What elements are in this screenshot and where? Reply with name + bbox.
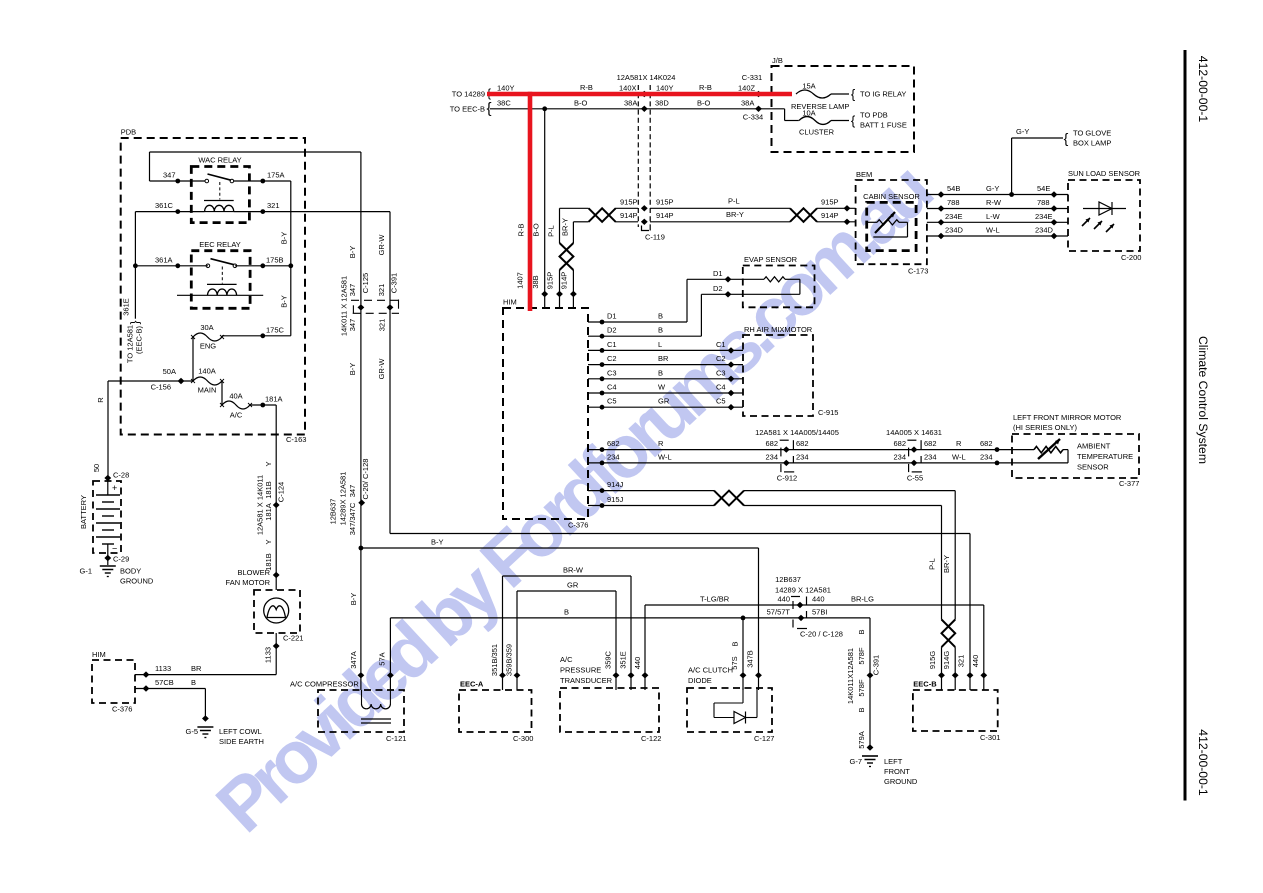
svg-text:175A: 175A <box>267 171 285 180</box>
svg-text:AMBIENT: AMBIENT <box>1077 442 1111 451</box>
pin diamond C-334 <box>755 106 762 112</box>
label PDB <box>121 128 136 137</box>
svg-text:347: 347 <box>348 319 357 332</box>
svg-text:38C: 38C <box>497 99 511 108</box>
label C-334 <box>743 113 763 122</box>
pin 914G <box>952 672 959 678</box>
label TO 14289 <box>452 90 485 99</box>
svg-text:REVERSE LAMP: REVERSE LAMP <box>791 102 849 111</box>
label 175B <box>266 255 284 264</box>
pin diamond 914P C-119 <box>641 219 648 225</box>
svg-text:1133: 1133 <box>264 647 273 663</box>
svg-text:C-55: C-55 <box>907 474 923 483</box>
label SENSOR <box>1077 463 1109 472</box>
svg-text:C-331: C-331 <box>742 73 762 82</box>
svg-text:15A: 15A <box>802 82 815 91</box>
mirror motor box <box>1012 434 1139 478</box>
svg-text:−: − <box>112 544 117 554</box>
wire 361E <box>134 266 136 319</box>
svg-text:234: 234 <box>980 452 993 461</box>
svg-text:A/C: A/C <box>230 411 243 420</box>
label C-376 main <box>568 521 588 530</box>
svg-text:R: R <box>956 439 962 448</box>
svg-text:{: { <box>129 320 143 324</box>
brace TO GLOVE <box>1064 130 1069 146</box>
HIM main box <box>503 308 588 519</box>
label C-376 bottom <box>112 705 132 714</box>
svg-text:G-1: G-1 <box>79 567 92 576</box>
svg-text:578F: 578F <box>857 647 866 665</box>
label CABIN SENSOR <box>863 192 920 201</box>
label C-121 <box>386 734 406 743</box>
svg-text:14A005 X 14631: 14A005 X 14631 <box>886 428 942 437</box>
svg-text:914P: 914P <box>560 272 569 290</box>
battery box <box>93 481 121 553</box>
svg-text:B-O: B-O <box>574 99 588 108</box>
label 359C rot <box>603 650 612 669</box>
label battery minus <box>112 544 117 554</box>
wire B-Y to 347B <box>758 548 760 690</box>
svg-text:54B: 54B <box>947 184 960 193</box>
pin 38B into HIM <box>541 291 548 308</box>
label LEFT FRONT MIRROR MOTOR <box>1013 413 1122 422</box>
label 915J <box>607 495 624 504</box>
svg-text:914P: 914P <box>620 211 638 220</box>
svg-text:G-7: G-7 <box>849 757 862 766</box>
svg-text:321: 321 <box>377 284 386 297</box>
svg-text:CABIN SENSOR: CABIN SENSOR <box>863 192 920 201</box>
EEC relay coil baseline <box>177 294 263 296</box>
label 54B <box>947 184 960 193</box>
svg-text:347: 347 <box>163 171 176 180</box>
svg-text:BR: BR <box>658 354 669 363</box>
pin 234E r <box>1051 219 1058 225</box>
title Climate Control System <box>1196 336 1210 464</box>
svg-text:W-L: W-L <box>986 226 1000 235</box>
label B C3 <box>658 368 663 377</box>
connector C-119 dashed lines <box>638 85 650 227</box>
dot 234 HIM <box>600 461 605 466</box>
label W-L mid <box>952 452 966 461</box>
label 914J <box>607 480 624 489</box>
svg-text:347: 347 <box>348 485 357 498</box>
label 175C <box>266 325 285 334</box>
pin 54B r <box>1051 191 1058 197</box>
svg-text:D2: D2 <box>607 326 617 335</box>
label C2 him <box>607 354 617 363</box>
pin C4 mix motor <box>728 390 735 396</box>
label 914P l <box>620 211 638 220</box>
label 234 c912 r <box>796 452 809 461</box>
EEC-A box <box>459 690 532 732</box>
label P-L rot2 <box>928 558 937 570</box>
label 57CB <box>155 678 174 687</box>
label R-B top1 <box>580 83 593 92</box>
svg-text:Climate Control System: Climate Control System <box>1196 336 1210 464</box>
label 347 below rot <box>348 319 357 332</box>
twist vertical P-L/BR-Y <box>560 243 574 270</box>
label 321 below rot <box>378 319 387 332</box>
svg-text:321: 321 <box>267 201 280 210</box>
wire 234 row <box>588 462 1013 464</box>
svg-text:914P: 914P <box>656 211 674 220</box>
page border rule <box>1184 50 1187 801</box>
wire 914J <box>588 491 955 620</box>
label 234E l <box>945 212 963 221</box>
dot C1 HIM <box>600 348 605 353</box>
svg-text:C-127: C-127 <box>754 734 774 743</box>
svg-text:B: B <box>191 678 196 687</box>
pin 57S <box>740 672 747 678</box>
svg-text:BEM: BEM <box>856 170 872 179</box>
junction box J/B <box>772 66 915 152</box>
label 234D l <box>945 226 964 235</box>
svg-text:12A581 X 14A005/14405: 12A581 X 14A005/14405 <box>755 428 839 437</box>
label BODY GROUND <box>120 567 154 586</box>
label AMBIENT <box>1077 442 1111 451</box>
svg-text:SIDE EARTH: SIDE EARTH <box>219 737 264 746</box>
svg-text:440: 440 <box>812 595 825 604</box>
svg-text:347A: 347A <box>349 651 358 669</box>
svg-text:B-Y: B-Y <box>431 538 444 547</box>
label 440 l <box>777 595 790 604</box>
svg-text:38B: 38B <box>531 275 540 288</box>
label B d2 <box>658 326 663 335</box>
junction dot 361A <box>175 263 180 268</box>
label 175A <box>267 171 285 180</box>
label SUN LOAD SENSOR <box>1068 169 1141 178</box>
label LEFT FRONT GROUND <box>884 757 918 786</box>
pin 915G <box>938 672 945 678</box>
pin 1133 <box>143 671 150 677</box>
svg-text:W-L: W-L <box>658 452 672 461</box>
svg-text:440: 440 <box>633 657 642 670</box>
svg-text:LEFT: LEFT <box>884 757 903 766</box>
label 15A <box>802 82 815 91</box>
svg-text:234: 234 <box>796 452 809 461</box>
svg-text:Y: Y <box>264 539 273 544</box>
label 38A-2 <box>741 99 754 108</box>
svg-text:914J: 914J <box>607 480 624 489</box>
svg-text:234: 234 <box>893 452 906 461</box>
label B-Y horiz <box>431 538 444 547</box>
svg-text:SUN LOAD SENSOR: SUN LOAD SENSOR <box>1068 169 1141 178</box>
connector C-55 <box>907 440 922 472</box>
svg-text:{: { <box>851 86 856 101</box>
svg-text:W: W <box>658 383 666 392</box>
wire 175A lead <box>234 180 291 182</box>
svg-text:C1: C1 <box>716 340 726 349</box>
label HIM bottom <box>92 650 106 659</box>
label A/C COMPRESSOR <box>290 680 359 689</box>
ground G-5 <box>197 727 213 738</box>
svg-text:C5: C5 <box>607 397 617 406</box>
svg-text:234E: 234E <box>945 212 963 221</box>
EVAP resistor loop <box>743 277 800 295</box>
label 181A <box>265 395 283 404</box>
svg-text:361E: 361E <box>122 298 131 316</box>
svg-text:412-00-00-1: 412-00-00-1 <box>1196 729 1210 796</box>
svg-text:R-B: R-B <box>517 224 526 237</box>
svg-text:C3: C3 <box>716 368 726 377</box>
svg-text:FAN MOTOR: FAN MOTOR <box>226 578 271 587</box>
label C1 mix <box>716 340 726 349</box>
label 38B rot <box>531 275 540 288</box>
wire D2 to EVAP <box>588 294 743 336</box>
label BR <box>191 664 202 673</box>
junction dot 175C <box>260 333 265 338</box>
svg-text:57/57T: 57/57T <box>767 607 791 616</box>
svg-text:915J: 915J <box>607 495 624 504</box>
label TO 12A581 <box>126 325 135 363</box>
label R-B rot <box>517 224 526 237</box>
pin 915P BEM <box>844 205 851 211</box>
svg-text:EEC-B: EEC-B <box>913 680 937 689</box>
label 351B/351 rot <box>490 644 499 676</box>
label GR C5 <box>658 397 670 406</box>
svg-text:57CB: 57CB <box>155 678 174 687</box>
svg-text:G-Y: G-Y <box>986 184 999 193</box>
label 234E r <box>1035 212 1053 221</box>
label TO GLOVE BOX LAMP <box>1073 129 1111 148</box>
clutch diode symbol <box>714 688 757 724</box>
pin C5 mix motor <box>728 404 735 410</box>
pin C-156 <box>178 378 185 384</box>
red wire 140Y/1407 <box>487 92 792 311</box>
brace TO 14289 <box>487 86 491 100</box>
dot C4 HIM <box>600 391 605 396</box>
svg-text:C-20 / C-128: C-20 / C-128 <box>800 630 843 639</box>
sun load sensor box <box>1068 180 1140 251</box>
label 1407 rot <box>516 272 525 289</box>
wire 914P mid <box>615 221 790 223</box>
label 361A <box>155 255 173 264</box>
svg-text:B-Y: B-Y <box>348 246 357 259</box>
label 57S rot <box>730 656 739 669</box>
svg-text:(HI SERIES ONLY): (HI SERIES ONLY) <box>1013 423 1078 432</box>
label 440 transducer rot <box>633 657 642 670</box>
label C1 him <box>607 340 617 349</box>
label 10A <box>802 109 815 118</box>
svg-text:R-B: R-B <box>699 83 712 92</box>
label 181B rot1 <box>264 481 273 499</box>
cabin sensor thermistor <box>867 212 908 237</box>
brace TO PDB BATT1 <box>851 113 856 128</box>
pin 915P HIM <box>556 291 563 297</box>
wire C2 row <box>588 364 743 366</box>
wire 361A row <box>135 265 208 267</box>
label B-Y vert2 <box>279 295 288 308</box>
label B-Y bus top rot <box>348 246 357 259</box>
label 578F below rot <box>857 679 866 697</box>
power distribution box PDB <box>121 138 305 435</box>
pin 321 EEC-B <box>967 672 974 678</box>
label 38C <box>497 99 511 108</box>
relay WAC box <box>191 167 249 223</box>
wire C1 row <box>588 349 743 351</box>
ground G-1 <box>100 566 116 577</box>
pin 440 transducer <box>642 672 649 678</box>
svg-text:EVAP SENSOR: EVAP SENSOR <box>744 255 798 264</box>
label 1133 rot <box>264 647 273 663</box>
svg-text:R-W: R-W <box>986 198 1002 207</box>
svg-text:915G: 915G <box>928 651 937 670</box>
battery cells <box>96 478 120 565</box>
svg-text:38D: 38D <box>655 99 669 108</box>
svg-text:788: 788 <box>1037 198 1050 207</box>
label C-301 <box>980 733 1000 742</box>
svg-text:578F: 578F <box>857 679 866 697</box>
label C-29 <box>113 555 129 564</box>
svg-text:C-376: C-376 <box>112 705 132 714</box>
svg-text:C-200: C-200 <box>1121 253 1141 262</box>
label 682 c55 l <box>893 439 906 448</box>
label 234 c55 r <box>924 452 937 461</box>
svg-text:C-121: C-121 <box>386 734 406 743</box>
label HI SERIES ONLY <box>1013 423 1078 432</box>
A/C clutch diode box <box>687 688 772 732</box>
label 682 c55 r <box>924 439 937 448</box>
svg-text:914P: 914P <box>821 211 839 220</box>
svg-text:682: 682 <box>924 439 937 448</box>
svg-text:BR: BR <box>191 664 202 673</box>
svg-text:B: B <box>857 629 866 634</box>
wire D1 to EVAP <box>588 279 743 322</box>
label W-L 234 <box>658 452 672 461</box>
svg-text:P-L: P-L <box>928 558 937 570</box>
label B-O rot <box>532 223 541 237</box>
wire 321 lead GR-W <box>234 211 390 213</box>
wire 361C row <box>135 212 204 266</box>
svg-text:C-377: C-377 <box>1119 479 1139 488</box>
svg-text:C-912: C-912 <box>777 474 797 483</box>
label GR-W top rot <box>377 234 386 256</box>
label BATT 1 FUSE <box>860 121 907 130</box>
pin 788 r <box>1051 205 1058 211</box>
svg-text:234: 234 <box>924 452 937 461</box>
pin C-391 <box>387 304 394 310</box>
label 914P rot <box>560 272 569 290</box>
wire 915J <box>588 506 942 620</box>
RH air mix motor box <box>743 335 813 416</box>
label 321 above rot <box>377 284 386 297</box>
fuse 30A ENG <box>191 333 224 341</box>
label 57A rot <box>378 652 387 665</box>
svg-text:57BI: 57BI <box>812 607 827 616</box>
label C-200 <box>1121 253 1141 262</box>
pin C2 mix motor <box>728 361 735 367</box>
label 579A rot <box>857 731 866 749</box>
wire 914P riser <box>573 222 588 308</box>
svg-text:C3: C3 <box>607 368 617 377</box>
label A/C PRESSURE TRANSDUCER <box>560 655 613 685</box>
label 321 <box>267 201 280 210</box>
label G-Y upper <box>1016 127 1029 136</box>
label 181B rot2 <box>264 553 273 571</box>
svg-text:682: 682 <box>893 439 906 448</box>
twist 915P/914P left <box>589 208 616 222</box>
label T-LG/BR <box>700 595 730 604</box>
svg-text:+: + <box>112 483 117 493</box>
wire 915P riser <box>560 208 589 308</box>
wire 54B row <box>927 194 1068 196</box>
label BR-LG <box>851 595 874 604</box>
svg-text:(EEC-B): (EEC-B) <box>135 326 144 354</box>
svg-text:R: R <box>658 439 664 448</box>
EVAP sensor box <box>743 266 815 308</box>
fuse 40A AC <box>220 401 252 409</box>
pin 234D r <box>1051 233 1058 239</box>
svg-text:B: B <box>730 641 739 646</box>
svg-text:G-Y: G-Y <box>1016 127 1029 136</box>
label GR <box>567 581 579 590</box>
label C-20/C-128 rot <box>361 459 370 500</box>
label J/B <box>772 56 783 65</box>
label TO EEC-B <box>450 105 485 114</box>
WAC relay coil <box>205 205 234 211</box>
svg-text:57A: 57A <box>378 652 387 665</box>
svg-text:BLOWER: BLOWER <box>237 568 270 577</box>
wire GR-W bus <box>390 212 970 690</box>
label 682 him <box>607 439 620 448</box>
svg-text:C-300: C-300 <box>513 734 533 743</box>
svg-text:BR-Y: BR-Y <box>561 218 570 236</box>
label C-122 <box>641 734 661 743</box>
svg-text:181B: 181B <box>264 481 273 499</box>
label Y rot1 <box>264 461 273 466</box>
svg-text:C-376: C-376 <box>568 521 588 530</box>
svg-text:359C: 359C <box>603 650 612 669</box>
wire 234E row <box>927 221 1068 223</box>
svg-text:181A: 181A <box>264 503 273 521</box>
wire 140A left to battery <box>108 381 193 478</box>
label BATTERY <box>79 495 88 529</box>
label 12B637 rot <box>329 499 338 525</box>
svg-text:915P: 915P <box>546 272 555 290</box>
svg-text:C-391: C-391 <box>872 655 881 675</box>
svg-text:C-301: C-301 <box>980 733 1000 742</box>
svg-text:C1: C1 <box>607 340 617 349</box>
svg-text:C-915: C-915 <box>818 408 838 417</box>
label 788 l <box>947 198 960 207</box>
junction dot 181A <box>260 403 265 408</box>
fuse 140A MAIN <box>191 377 224 385</box>
svg-text:SENSOR: SENSOR <box>1077 463 1109 472</box>
label 915P r <box>656 198 674 207</box>
svg-text:140X: 140X <box>619 84 637 93</box>
dot 234 mirror <box>995 461 1000 466</box>
svg-text:D1: D1 <box>713 269 723 278</box>
svg-text:BR-W: BR-W <box>563 566 584 575</box>
svg-text:L: L <box>658 340 662 349</box>
junction dot 175B vertical <box>288 263 293 268</box>
svg-text:B: B <box>564 607 569 616</box>
label L-W row <box>986 212 1001 221</box>
label C-28 <box>113 471 129 480</box>
wire 440 run <box>645 605 984 690</box>
fuse 15A <box>796 90 849 98</box>
label C3 him <box>607 368 617 377</box>
wire 1133 row <box>135 674 276 676</box>
svg-text:321: 321 <box>956 655 965 668</box>
svg-text:GR: GR <box>658 397 670 406</box>
connector C-912 <box>780 440 795 472</box>
label 12A581 X 14A005/14405 <box>755 428 839 437</box>
label C-377 <box>1119 479 1139 488</box>
label 140A <box>198 367 216 376</box>
label B 57CB <box>191 678 196 687</box>
svg-text:GROUND: GROUND <box>120 577 154 586</box>
